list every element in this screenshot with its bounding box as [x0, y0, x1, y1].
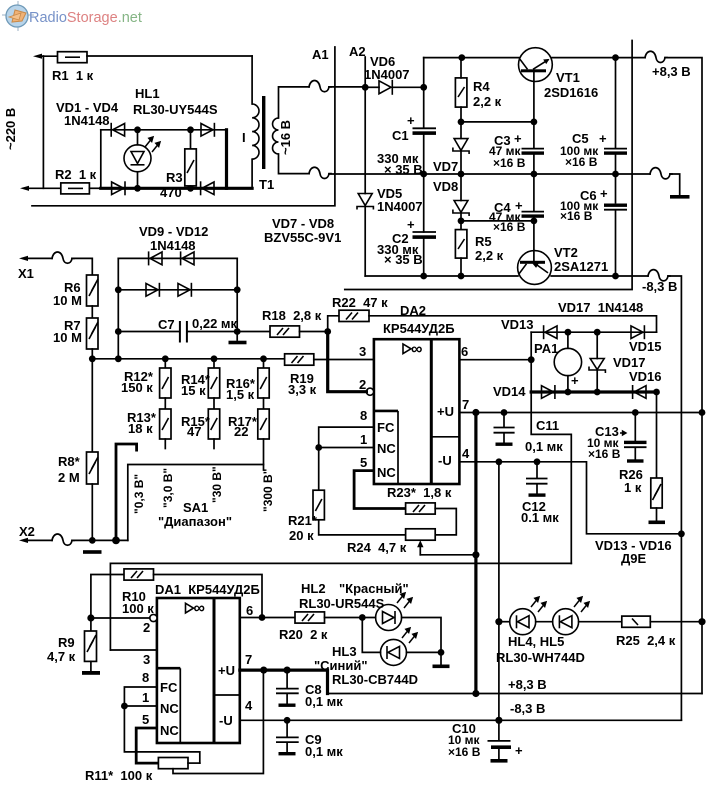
node C7 left — [115, 328, 122, 335]
resistor R15 — [208, 398, 219, 449]
node bridge right bottom — [653, 389, 660, 396]
svg-text:КР544УД2Б: КР544УД2Б — [383, 321, 455, 336]
svg-text:0.1 мк: 0.1 мк — [521, 510, 559, 525]
node pin1 DA2 — [315, 444, 322, 451]
svg-text:VD13: VD13 — [501, 317, 534, 332]
svg-text:22: 22 — [234, 424, 248, 439]
node C10 — [495, 717, 502, 724]
diode VD13 — [544, 325, 557, 339]
capacitor C5 — [604, 58, 627, 174]
node +U right — [699, 409, 706, 416]
capacitor C3 — [522, 122, 545, 174]
wire break T1 bottom — [309, 167, 331, 178]
svg-text:150 к: 150 к — [121, 380, 153, 395]
node R5 bottom — [458, 273, 465, 280]
wire T1 top to A2 node — [329, 86, 365, 88]
svg-text:~16 В: ~16 В — [278, 120, 293, 155]
node bridge top right — [187, 126, 194, 133]
svg-text:+: + — [407, 217, 415, 232]
node row2 left — [115, 286, 122, 293]
wire R4 bottom — [460, 107, 462, 138]
wire bridge right vertical — [225, 130, 228, 189]
node -U top — [496, 458, 503, 465]
svg-text:DA2: DA2 — [400, 303, 426, 318]
capacitor C2 — [413, 174, 437, 276]
svg-text:2: 2 — [359, 377, 366, 392]
node +U R11 — [260, 667, 267, 674]
svg-text:R4: R4 — [473, 79, 490, 94]
capacitor C10 — [488, 720, 512, 762]
resistor R18 — [237, 326, 328, 337]
node C3 gnd — [531, 171, 538, 178]
svg-text:VT1: VT1 — [556, 70, 580, 85]
svg-text:+: + — [515, 743, 523, 758]
svg-text:1: 1 — [142, 690, 149, 705]
svg-text:X2: X2 — [19, 524, 35, 539]
arrow X1 — [19, 256, 28, 261]
diode VD12 — [178, 283, 191, 297]
diode VD11 — [146, 283, 159, 297]
wire LED row left — [499, 621, 510, 623]
ground X2 — [83, 550, 102, 554]
svg-text:FC: FC — [377, 420, 395, 435]
wire X1 — [24, 257, 52, 259]
label C13 arrow — [620, 431, 626, 435]
svg-text:"3,0 В": "3,0 В" — [161, 468, 175, 508]
node C5 gnd — [612, 171, 619, 178]
wire bus — [92, 358, 284, 360]
node bridge top PA1 — [565, 329, 572, 336]
capacitor C13 — [624, 413, 647, 463]
svg-text:R18 2,8 к: R18 2,8 к — [262, 308, 322, 323]
svg-text:∞: ∞ — [194, 600, 205, 617]
wire -8.3 corner down — [668, 276, 681, 720]
resistor R26 — [649, 478, 666, 524]
diode VD10 — [181, 251, 194, 265]
svg-text:Д9Е: Д9Е — [621, 551, 646, 566]
svg-text:X1: X1 — [18, 266, 34, 281]
wire HL5 to R25 — [579, 621, 622, 623]
wire clip row2 — [118, 289, 237, 291]
switch SA1 contact line — [128, 465, 264, 541]
svg-text:VD17: VD17 — [613, 355, 646, 370]
svg-text:2: 2 — [143, 620, 150, 635]
svg-text:×16 В: ×16 В — [448, 745, 481, 759]
svg-text:RL30-WH744D: RL30-WH744D — [496, 650, 585, 665]
wire break X2 — [52, 534, 74, 545]
svg-text:8: 8 — [360, 408, 367, 423]
svg-text:+: + — [600, 186, 608, 201]
wire pin1 DA2 — [319, 447, 374, 449]
node R24 wiper — [472, 551, 479, 558]
svg-text:C11: C11 — [536, 418, 559, 433]
zener VD17 — [589, 332, 605, 392]
wire mains left vertical — [42, 56, 44, 188]
wire R22 feedback — [369, 316, 657, 332]
ground C7 — [229, 341, 247, 345]
svg-text:"Синий": "Синий" — [314, 658, 368, 673]
wire C1 top riser — [423, 58, 425, 128]
capacitor C12 — [526, 462, 548, 497]
node pin1 DA1 — [121, 703, 128, 710]
node C2 bottom — [420, 273, 427, 280]
svg-text:I: I — [242, 130, 246, 145]
node rail R4 — [458, 54, 465, 61]
capacitor C4 — [522, 174, 545, 221]
resistor R14 — [208, 359, 219, 398]
svg-text:×16 В: ×16 В — [493, 156, 526, 170]
LED HL2 — [376, 593, 412, 631]
svg-text:∞: ∞ — [411, 341, 422, 358]
wire C11 path — [531, 392, 571, 563]
node C6 bottom — [612, 273, 619, 280]
resistor R16 — [258, 359, 269, 398]
node C9 — [284, 717, 291, 724]
svg-text:× 35 В: × 35 В — [384, 252, 423, 267]
node VD7 gnd — [458, 171, 465, 178]
diode VD6 — [365, 80, 424, 95]
svg-text:C7: C7 — [158, 317, 175, 332]
svg-text:RL30-CB744D: RL30-CB744D — [332, 672, 418, 687]
svg-text:8: 8 — [142, 670, 149, 685]
svg-text:R23* 1,8 к: R23* 1,8 к — [387, 485, 452, 500]
wire break +8.3 top — [645, 51, 667, 62]
svg-text:R22 47 к: R22 47 к — [332, 295, 388, 310]
svg-text:VD15: VD15 — [629, 339, 662, 354]
wire bridge top rail — [531, 331, 656, 333]
wire A loop — [345, 41, 632, 290]
wire top rail — [424, 57, 519, 59]
svg-text:3: 3 — [359, 344, 366, 359]
capacitor C7 — [118, 321, 237, 343]
svg-text:"30 В": "30 В" — [210, 466, 224, 503]
svg-text:-U: -U — [219, 713, 233, 728]
wire clip row1 — [118, 257, 237, 259]
svg-text:RadioStorage.net: RadioStorage.net — [29, 10, 142, 26]
svg-text:×16 В: ×16 В — [565, 155, 598, 169]
svg-text:NC: NC — [377, 465, 396, 480]
arrow mains bottom — [20, 186, 29, 191]
wire -8.3 rail — [365, 275, 518, 277]
wire bridge left vertical — [100, 130, 102, 189]
diode VD1 — [111, 123, 124, 137]
svg-text:0,1 мк: 0,1 мк — [305, 694, 343, 709]
wire -U DA1 minus rail — [240, 719, 682, 721]
svg-text:R5: R5 — [475, 234, 492, 249]
node bus left — [115, 355, 122, 362]
resistor R9 — [82, 618, 100, 675]
svg-text:6: 6 — [461, 344, 468, 359]
pin2 circle DA2 — [366, 388, 373, 395]
node VT2 row — [531, 218, 538, 225]
node X2 gnd — [89, 537, 96, 544]
svg-text:0,22 мк: 0,22 мк — [192, 316, 238, 331]
diode VD15 — [631, 325, 644, 339]
resistor R10 — [124, 569, 262, 618]
wire bridge top rail — [101, 129, 227, 131]
node divider col3 — [260, 355, 267, 362]
resistor R11 — [158, 670, 263, 773]
diode VD4 — [201, 181, 214, 195]
resistor R13 — [160, 398, 171, 449]
resistor R7 — [87, 318, 99, 349]
svg-text:10 М: 10 М — [53, 293, 82, 308]
svg-text:10 М: 10 М — [53, 330, 82, 345]
node bridge bottom left — [134, 185, 141, 192]
node bridge bottom PA1 — [565, 389, 572, 396]
node X2 wiper — [112, 537, 120, 545]
wire pin3 DA1 long line — [110, 563, 571, 650]
capacitor C8 — [276, 670, 299, 707]
diode VD5 — [357, 87, 373, 276]
zener VD7 — [453, 139, 469, 174]
svg-text:VT2: VT2 — [554, 245, 578, 260]
wire pin2 DA2 — [328, 332, 367, 392]
wire R10 line — [91, 575, 124, 619]
LED HL1 — [124, 130, 160, 189]
wire between HL4 HL5 — [536, 621, 553, 623]
wire R7 to bus — [91, 349, 93, 452]
svg-text:× 35 В: × 35 В — [384, 162, 423, 177]
svg-text:+: + — [407, 113, 415, 128]
svg-text:A1: A1 — [312, 47, 329, 62]
node divider col2 — [211, 355, 218, 362]
svg-text:R8*: R8* — [58, 454, 81, 469]
svg-text:+8,3 В: +8,3 В — [652, 64, 691, 79]
svg-text:×16 В: ×16 В — [560, 209, 593, 223]
meter PA1 — [554, 332, 581, 392]
node HL2 in — [359, 614, 366, 621]
wire row VT2 — [461, 220, 534, 222]
svg-text:BZV55C-9V1: BZV55C-9V1 — [264, 230, 341, 245]
wire FC DA2 — [319, 427, 374, 447]
meter bridge left vert — [530, 332, 532, 392]
wire A1 link — [32, 47, 335, 206]
svg-text:20 к: 20 к — [289, 528, 314, 543]
resistor R2 — [61, 183, 90, 194]
wire pin5 DA1 — [136, 728, 158, 763]
capacitor C9 — [276, 720, 299, 755]
svg-text:-8,3 В: -8,3 В — [510, 701, 545, 716]
resistor R21 — [313, 448, 406, 535]
svg-text:4: 4 — [245, 698, 253, 713]
svg-text:1N4007: 1N4007 — [364, 67, 410, 82]
op-amp DA1 — [157, 598, 240, 743]
node +U C8 — [284, 667, 291, 674]
wire X2 — [24, 539, 52, 541]
svg-text:T1: T1 — [259, 177, 274, 192]
capacitor C1 — [413, 128, 437, 174]
wire R2 to bridge — [89, 187, 100, 189]
resistor R17 — [258, 398, 269, 470]
wire break X1 — [52, 252, 74, 263]
node +8.3 rail — [472, 690, 479, 697]
svg-text:+U: +U — [437, 404, 454, 419]
wire R6-R7 — [91, 306, 93, 318]
resistor R23 — [406, 503, 457, 535]
resistor R4 — [455, 78, 467, 107]
svg-text:7: 7 — [462, 397, 469, 412]
node bridge bottom right — [187, 185, 194, 192]
resistor R25 — [622, 616, 702, 627]
svg-text:R11* 100 к: R11* 100 к — [85, 768, 153, 783]
resistor R8 — [87, 452, 99, 540]
resistor R12 — [160, 359, 171, 398]
svg-text:R9: R9 — [58, 635, 75, 650]
wire -U DA2 — [459, 462, 681, 534]
transistor VT1 — [519, 48, 553, 122]
wire pin6 DA2 — [459, 359, 531, 361]
wire rail to right corner — [665, 58, 702, 694]
node bridge top VD17 — [594, 329, 601, 336]
svg-text:×16 В: ×16 В — [588, 447, 621, 461]
svg-text:1: 1 — [360, 432, 367, 447]
wire X2 to switch — [72, 539, 128, 541]
wire mains bottom — [25, 187, 61, 189]
op-amp DA2 — [374, 339, 460, 484]
svg-text:R21*: R21* — [288, 513, 318, 528]
ground main right — [670, 174, 690, 199]
svg-text:2,2 к: 2,2 к — [475, 248, 504, 263]
wire pin2 DA1 — [91, 617, 150, 619]
node pin2 R9 — [87, 614, 94, 621]
svg-text:HL1: HL1 — [135, 86, 160, 101]
node R18 out — [324, 328, 331, 335]
wire R1 to T1 — [87, 55, 252, 57]
svg-text:6: 6 — [246, 603, 253, 618]
diode VD9 — [149, 251, 162, 265]
svg-text:R25 2,4 к: R25 2,4 к — [616, 633, 676, 648]
svg-text:1N4148: 1N4148 — [64, 113, 110, 128]
wire break T1 top — [309, 81, 331, 92]
node A2 — [362, 84, 369, 91]
node bridge top left — [134, 126, 141, 133]
node R4 bottom — [458, 119, 465, 126]
svg-text:VD7: VD7 — [433, 159, 458, 174]
switch SA1 wiper — [116, 444, 137, 540]
svg-text:C1: C1 — [392, 128, 409, 143]
node VD6 out — [420, 84, 427, 91]
LED HL3 — [381, 628, 418, 665]
arrow X2 — [19, 538, 28, 543]
wire break -8.3 rail — [648, 270, 670, 281]
node VD8 bottom — [458, 218, 465, 225]
node rail C5 — [612, 54, 619, 61]
node bridge bottom VD17 — [594, 389, 601, 396]
resistor R3 — [185, 130, 197, 189]
svg-text:FC: FC — [160, 680, 178, 695]
wire bridge bottom rail — [101, 187, 252, 190]
wire +8.3 bottom rail — [328, 693, 703, 695]
svg-text:1,5 к: 1,5 к — [226, 387, 255, 402]
transistor VT2 — [518, 221, 552, 285]
svg-text:PA1: PA1 — [534, 341, 558, 356]
zener VD8 — [453, 174, 469, 230]
svg-text:2SD1616: 2SD1616 — [544, 85, 598, 100]
svg-text:~220 В: ~220 В — [3, 108, 18, 150]
node C7 right — [234, 328, 241, 335]
svg-text:47: 47 — [187, 424, 201, 439]
wire pin3 DA1 — [110, 649, 156, 651]
svg-text:"0,3 В": "0,3 В" — [132, 474, 146, 514]
svg-text:R24 4,7 к: R24 4,7 к — [347, 540, 407, 555]
svg-text:HL2: HL2 — [301, 581, 326, 596]
diode VD14 — [542, 385, 555, 399]
svg-text:DA1 КР544УД2Б: DA1 КР544УД2Б — [155, 582, 260, 597]
svg-text:0,1 мк: 0,1 мк — [305, 744, 343, 759]
svg-text:2SA1271: 2SA1271 — [554, 259, 608, 274]
wire break ground rail — [650, 168, 672, 179]
node R25 right — [698, 618, 705, 625]
wire FC DA1 — [124, 687, 199, 763]
svg-text:4,7 к: 4,7 к — [47, 649, 76, 664]
node bridge in — [528, 356, 535, 363]
logo RadioStorage.net — [2, 1, 142, 31]
node R7 bus — [89, 355, 96, 362]
svg-text:HL3: HL3 — [332, 644, 357, 659]
svg-text:R20 2 к: R20 2 к — [279, 627, 328, 642]
svg-text:RL30-UY544S: RL30-UY544S — [133, 102, 218, 117]
svg-text:1N4148: 1N4148 — [150, 238, 196, 253]
diode VD2 — [201, 123, 214, 137]
resistor R6 — [87, 275, 99, 306]
svg-text:1N4007: 1N4007 — [377, 199, 423, 214]
node -U joins minus rail — [678, 530, 685, 537]
node row2 right — [234, 286, 241, 293]
svg-text:3,3 к: 3,3 к — [288, 382, 317, 397]
svg-text:7: 7 — [245, 652, 252, 667]
node HL4 in — [495, 618, 502, 625]
wire -U thin vertical — [498, 462, 500, 721]
svg-text:HL4, HL5: HL4, HL5 — [508, 634, 564, 649]
svg-text:"300 В": "300 В" — [261, 469, 275, 512]
wire A2 terminal — [364, 57, 366, 87]
node HL ground — [438, 649, 445, 656]
wire +8.3 thick vertical — [474, 413, 477, 694]
svg-text:5: 5 — [142, 712, 149, 727]
svg-text:R1 1 к: R1 1 к — [52, 68, 94, 83]
wire X1 to R6 — [72, 258, 92, 275]
svg-text:+: + — [571, 373, 579, 388]
svg-text:+8,3 В: +8,3 В — [508, 677, 547, 692]
svg-text:+U: +U — [218, 663, 235, 678]
svg-text:A2: A2 — [349, 44, 366, 59]
transformer T1 — [252, 56, 309, 188]
svg-text:4: 4 — [462, 446, 470, 461]
svg-text:-8,3 В: -8,3 В — [642, 279, 677, 294]
svg-text:R2 1 к: R2 1 к — [55, 167, 97, 182]
pin2 circle DA1 — [150, 614, 157, 621]
arrow mains top — [33, 54, 42, 59]
wire HL3 right — [407, 651, 442, 653]
node divider col1 — [162, 355, 169, 362]
wire HL3 branch — [362, 618, 380, 653]
svg-text:VD7 - VD8: VD7 - VD8 — [272, 216, 334, 231]
capacitor C6 — [604, 174, 627, 276]
svg-text:0,1 мк: 0,1 мк — [525, 439, 563, 454]
svg-text:VD17 1N4148: VD17 1N4148 — [558, 300, 643, 315]
wire bridge right to R26 — [656, 392, 658, 478]
wire bridge bottom rail — [531, 390, 656, 393]
svg-text:18 к: 18 к — [128, 421, 153, 436]
svg-text:470: 470 — [160, 185, 182, 200]
wire pin1 DA1 — [124, 705, 156, 707]
node -U C12 — [534, 458, 541, 465]
node C1 gnd — [420, 171, 427, 178]
svg-text:2,2 к: 2,2 к — [473, 94, 502, 109]
wire clip ladder left — [117, 258, 119, 358]
svg-text:3: 3 — [143, 652, 150, 667]
